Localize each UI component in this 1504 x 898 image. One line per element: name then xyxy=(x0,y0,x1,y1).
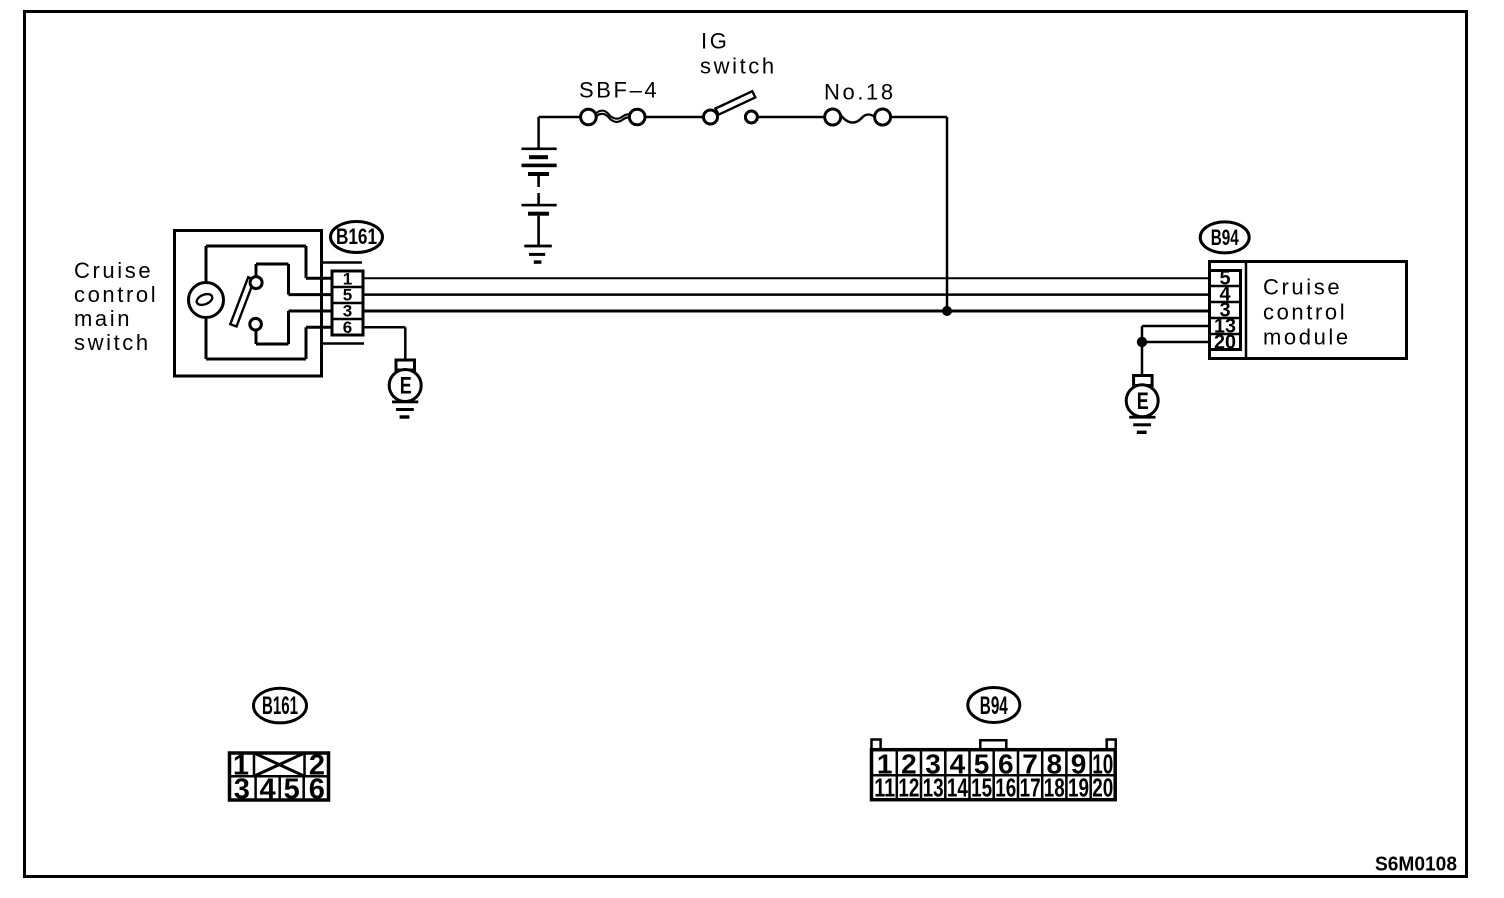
svg-text:5: 5 xyxy=(284,774,300,806)
svg-text:6: 6 xyxy=(309,774,325,806)
svg-text:main: main xyxy=(74,306,132,331)
svg-text:18: 18 xyxy=(1044,773,1065,803)
svg-text:4: 4 xyxy=(260,774,276,806)
svg-text:20: 20 xyxy=(1214,332,1236,354)
svg-text:module: module xyxy=(1263,325,1351,350)
svg-text:B161: B161 xyxy=(336,224,377,249)
svg-text:17: 17 xyxy=(1020,773,1041,803)
svg-text:switch: switch xyxy=(700,54,777,79)
svg-text:IG: IG xyxy=(701,29,729,54)
svg-text:11: 11 xyxy=(874,773,895,803)
svg-text:16: 16 xyxy=(995,773,1016,803)
svg-text:E: E xyxy=(1137,388,1149,415)
svg-text:6: 6 xyxy=(343,318,352,337)
svg-text:switch: switch xyxy=(74,330,151,355)
svg-text:3: 3 xyxy=(234,774,250,806)
svg-text:SBF–4: SBF–4 xyxy=(579,78,659,103)
svg-text:13: 13 xyxy=(923,773,944,803)
svg-text:control: control xyxy=(1263,300,1347,325)
svg-text:B161: B161 xyxy=(262,692,298,720)
svg-text:Cruise: Cruise xyxy=(1263,275,1342,300)
svg-text:Cruise: Cruise xyxy=(74,258,153,283)
svg-text:E: E xyxy=(400,373,412,400)
svg-text:15: 15 xyxy=(971,773,992,803)
svg-text:19: 19 xyxy=(1068,773,1089,803)
svg-text:control: control xyxy=(74,282,158,307)
svg-text:No.18: No.18 xyxy=(824,80,896,105)
svg-text:B94: B94 xyxy=(1211,225,1240,250)
svg-text:S6M0108: S6M0108 xyxy=(1375,854,1457,876)
svg-text:B94: B94 xyxy=(980,692,1008,720)
svg-text:12: 12 xyxy=(898,773,919,803)
svg-text:14: 14 xyxy=(947,773,968,803)
svg-text:20: 20 xyxy=(1092,773,1113,803)
